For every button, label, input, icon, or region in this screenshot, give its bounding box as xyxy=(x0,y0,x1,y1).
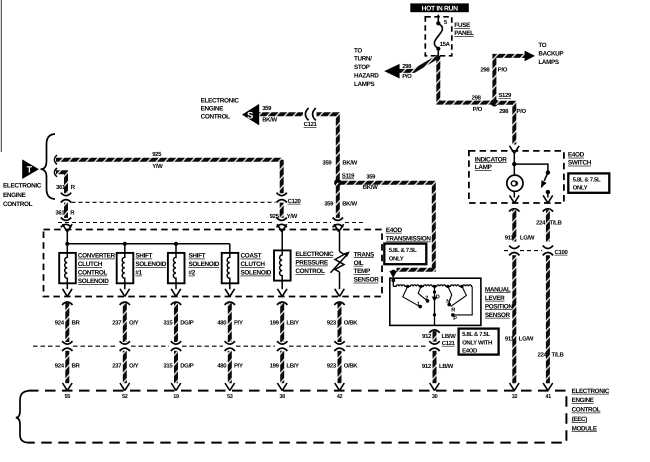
svg-text:BACKUP: BACKUP xyxy=(538,51,563,58)
svg-text:ELECTRONIC: ELECTRONIC xyxy=(572,388,610,395)
svg-text:911: 911 xyxy=(505,235,515,242)
svg-text:STOP: STOP xyxy=(354,64,370,71)
svg-text:TURN/: TURN/ xyxy=(354,56,372,63)
svg-text:298: 298 xyxy=(499,108,509,115)
svg-text:DG/P: DG/P xyxy=(180,363,194,370)
wire 911 LG/W upper xyxy=(512,210,516,242)
wire 923 O/BK lower xyxy=(338,351,342,383)
entry arrow 359 into transmission box xyxy=(334,224,344,232)
connector pair on 361 wire at C120 line xyxy=(61,193,71,203)
splice S119 xyxy=(334,179,341,186)
entry arrow 925 into transmission box xyxy=(277,224,287,232)
svg-text:30: 30 xyxy=(432,394,438,400)
indicator lamp label xyxy=(475,156,507,171)
arrow to backup lamps xyxy=(525,51,535,62)
exit arrows at transmission box bottom xyxy=(63,289,73,297)
svg-text:2: 2 xyxy=(425,296,428,302)
svg-text:LAMPS: LAMPS xyxy=(538,59,558,66)
svg-text:19: 19 xyxy=(173,394,179,400)
MLP tap dots xyxy=(406,285,409,288)
electronic engine control label (left) xyxy=(3,183,42,209)
svg-text:P: P xyxy=(453,316,457,322)
svg-text:MODULE: MODULE xyxy=(572,425,597,432)
svg-text:298: 298 xyxy=(480,66,490,73)
svg-text:315: 315 xyxy=(163,363,173,370)
svg-text:1: 1 xyxy=(417,301,420,307)
connector C121 inline xyxy=(305,108,315,120)
connector caps below indicator box xyxy=(509,209,519,212)
svg-text:CONTROL: CONTROL xyxy=(201,113,231,120)
shift solenoid #2 xyxy=(168,253,185,289)
label 298 P/O xyxy=(472,95,483,114)
svg-text:DG/P: DG/P xyxy=(180,319,194,326)
svg-text:COAST: COAST xyxy=(241,253,262,260)
connector C121 long dashed line xyxy=(33,345,428,347)
svg-text:LG/W: LG/W xyxy=(519,336,534,343)
svg-text:P/O: P/O xyxy=(473,106,483,113)
EEC module label xyxy=(572,388,610,433)
svg-text:C121: C121 xyxy=(442,340,456,347)
wire 480 P/Y lower xyxy=(228,351,232,383)
svg-text:912: 912 xyxy=(422,363,432,370)
svg-text:TRANSMISSION: TRANSMISSION xyxy=(386,236,432,243)
svg-text:S: S xyxy=(247,111,253,122)
svg-text:O/Y: O/Y xyxy=(129,363,139,370)
svg-text:315: 315 xyxy=(163,319,173,326)
svg-text:361: 361 xyxy=(56,184,66,191)
svg-text:LG/W: LG/W xyxy=(520,235,535,242)
connector pair on 359 wire xyxy=(333,218,343,228)
entry arrow 361 into transmission box xyxy=(63,224,73,232)
EEC module entry arrows xyxy=(63,383,73,391)
EEC brace xyxy=(16,391,28,443)
label 298 P/O left xyxy=(402,63,412,80)
MLP contact dots xyxy=(418,305,422,309)
connector C100 xyxy=(504,250,542,252)
solenoid feed bus xyxy=(67,232,230,253)
svg-text:P/Y: P/Y xyxy=(234,363,243,370)
svg-text:5.8L & 7.5L: 5.8L & 7.5L xyxy=(389,247,417,254)
wire 361 R down from brace xyxy=(56,172,66,193)
svg-text:C120: C120 xyxy=(288,198,302,205)
wire 912 LB/W lower xyxy=(433,351,437,383)
wire 924 BR xyxy=(65,303,69,342)
connector pair on 361 wire line2 xyxy=(61,218,71,228)
entry arrow into indicator lamp box xyxy=(510,146,520,154)
svg-text:SOLENOID: SOLENOID xyxy=(241,270,272,277)
wire 224 T/LB upper xyxy=(546,210,550,242)
svg-text:P/Y: P/Y xyxy=(234,319,243,326)
svg-text:#2: #2 xyxy=(189,270,196,277)
svg-text:N: N xyxy=(446,299,450,305)
svg-text:(EEC): (EEC) xyxy=(572,416,588,423)
off-page connector S xyxy=(242,104,259,126)
wire 923 O/BK xyxy=(338,303,342,342)
MLP resistor chain xyxy=(393,285,472,287)
5.8L & 7.5L only box (switch) xyxy=(568,173,609,192)
wire C121 to S119 xyxy=(317,114,338,180)
svg-text:480: 480 xyxy=(217,363,227,370)
svg-text:359: 359 xyxy=(262,105,272,112)
label 359 BK/W vertical xyxy=(322,159,357,166)
svg-text:BR: BR xyxy=(72,319,81,326)
svg-text:FUSE: FUSE xyxy=(454,22,471,29)
wire 911 LG/W lower xyxy=(512,255,516,383)
svg-text:TEMP: TEMP xyxy=(354,268,371,275)
svg-text:5.8L & 7.5L: 5.8L & 7.5L xyxy=(573,177,601,184)
svg-text:T/LB: T/LB xyxy=(552,352,565,359)
arrow to turn/stop hazard lamps xyxy=(384,64,399,79)
svg-text:SOLENOID: SOLENOID xyxy=(135,261,166,268)
svg-text:298: 298 xyxy=(472,95,482,102)
svg-text:SENSOR: SENSOR xyxy=(485,312,511,319)
svg-text:ELECTRONIC: ELECTRONIC xyxy=(3,183,42,190)
svg-text:ENGINE: ENGINE xyxy=(3,192,26,199)
svg-text:SENSOR: SENSOR xyxy=(354,277,380,284)
svg-text:52: 52 xyxy=(122,394,128,400)
shift solenoid #1 xyxy=(117,253,134,289)
svg-text:E4OD: E4OD xyxy=(462,348,478,355)
svg-text:CONVERTER: CONVERTER xyxy=(78,253,116,260)
branch to switch xyxy=(514,164,548,197)
wire 315 DG/P xyxy=(174,303,178,342)
connector caps below transmission box xyxy=(62,302,72,305)
svg-text:BK/W: BK/W xyxy=(342,159,357,166)
svg-text:924: 924 xyxy=(55,319,65,326)
E4OD switch label xyxy=(568,152,592,167)
svg-text:224: 224 xyxy=(538,352,548,359)
svg-text:53: 53 xyxy=(227,394,233,400)
label 298 P/O up branch xyxy=(480,66,507,73)
svg-text:LEVER: LEVER xyxy=(485,295,505,302)
svg-text:Y/W: Y/W xyxy=(152,163,163,170)
5.8L & 7.5L only with E4OD box xyxy=(459,329,499,355)
svg-text:CONTROL: CONTROL xyxy=(295,268,325,275)
converter clutch control solenoid xyxy=(59,253,76,289)
wire 199 LB/Y xyxy=(280,303,284,342)
svg-text:32: 32 xyxy=(512,394,518,400)
page edge artifact line xyxy=(0,0,2,152)
wire 925 down leg xyxy=(280,160,284,193)
fuse panel dashed box xyxy=(425,17,452,56)
splice S129 xyxy=(491,99,498,106)
connector dashed line C120 xyxy=(72,201,276,203)
svg-text:POSITION: POSITION xyxy=(485,303,513,310)
svg-text:42: 42 xyxy=(337,394,343,400)
svg-text:LAMP: LAMP xyxy=(475,164,493,171)
svg-text:ONLY: ONLY xyxy=(573,185,588,192)
svg-text:237: 237 xyxy=(112,319,122,326)
MLP feed stub and solid entry arrow xyxy=(391,270,395,272)
svg-text:361: 361 xyxy=(55,210,65,217)
svg-text:298: 298 xyxy=(402,63,412,70)
svg-text:41: 41 xyxy=(545,394,551,400)
svg-text:ENGINE: ENGINE xyxy=(201,105,224,112)
svg-text:BK/W: BK/W xyxy=(342,201,357,208)
wire 237 O/Y lower xyxy=(123,351,127,383)
wire fuse to S129 xyxy=(438,56,491,103)
lamp feed line xyxy=(513,153,515,197)
svg-text:LB/W: LB/W xyxy=(439,363,454,370)
HOT IN RUN header box xyxy=(410,3,469,12)
svg-text:LB/Y: LB/Y xyxy=(286,363,299,370)
connector dashed line 2 xyxy=(58,222,363,224)
electronic engine control label (top) xyxy=(201,98,240,121)
svg-text:359: 359 xyxy=(366,174,376,181)
wire S129 up to backup lamps xyxy=(494,56,525,103)
coast clutch solenoid xyxy=(222,253,239,289)
svg-text:ELECTRONIC: ELECTRONIC xyxy=(201,98,240,105)
electronic pressure control solenoid xyxy=(274,232,291,289)
svg-text:38: 38 xyxy=(279,394,285,400)
svg-text:HOT IN RUN: HOT IN RUN xyxy=(422,5,459,12)
svg-text:CONTROL: CONTROL xyxy=(572,407,601,414)
svg-text:SOLENOID: SOLENOID xyxy=(189,261,220,268)
svg-text:#1: #1 xyxy=(135,270,142,277)
svg-text:C121: C121 xyxy=(304,121,318,128)
E4OD switch xyxy=(546,170,550,174)
junction dot xyxy=(512,162,516,166)
EEC module dashed box xyxy=(28,391,566,443)
svg-text:LB/Y: LB/Y xyxy=(286,319,299,326)
svg-text:5.8L & 7.5L: 5.8L & 7.5L xyxy=(462,331,490,338)
svg-text:SWITCH: SWITCH xyxy=(568,160,592,167)
svg-text:ENGINE: ENGINE xyxy=(572,397,594,404)
exit arrows indicator box xyxy=(510,195,520,203)
svg-text:CLUTCH: CLUTCH xyxy=(78,261,103,268)
connector pairs on six wires at C121 line xyxy=(62,341,72,351)
connector cap below MLP box xyxy=(429,330,439,333)
svg-text:359: 359 xyxy=(324,201,334,208)
svg-text:PANEL: PANEL xyxy=(454,30,474,37)
EEC pin numbers xyxy=(65,394,552,400)
svg-text:S119: S119 xyxy=(342,173,355,180)
off-page connector T xyxy=(22,159,39,179)
trans oil temp sensor thermistor xyxy=(331,232,348,289)
wire 298 to turn/stop lamps xyxy=(399,57,439,71)
svg-text:INDICATOR: INDICATOR xyxy=(475,156,507,163)
svg-text:P/O: P/O xyxy=(498,66,508,73)
svg-text:912: 912 xyxy=(422,333,432,340)
svg-text:SOLENOID: SOLENOID xyxy=(78,278,109,285)
svg-text:237: 237 xyxy=(112,363,122,370)
svg-text:HAZARD: HAZARD xyxy=(354,73,379,80)
svg-text:T: T xyxy=(27,165,33,175)
wire S119 down to trans oil temp sensor xyxy=(336,183,340,218)
svg-text:MANUAL: MANUAL xyxy=(485,286,511,293)
svg-text:224: 224 xyxy=(536,220,546,227)
svg-text:BK/W: BK/W xyxy=(363,184,378,191)
svg-text:T/LB: T/LB xyxy=(550,220,563,227)
svg-text:C100: C100 xyxy=(555,249,569,256)
indicator lamp xyxy=(507,175,523,191)
svg-text:ONLY: ONLY xyxy=(389,256,404,263)
wire 912 upper stub xyxy=(433,331,437,342)
wire 925 Y/W horizontal xyxy=(56,158,282,162)
wire 480 P/Y xyxy=(228,303,232,342)
svg-text:TRANS: TRANS xyxy=(354,251,375,258)
svg-text:OIL: OIL xyxy=(354,260,364,267)
svg-text:CONTROL: CONTROL xyxy=(3,201,33,208)
svg-text:359: 359 xyxy=(322,159,332,166)
svg-text:PRESSURE: PRESSURE xyxy=(295,260,328,267)
connector C121 pair on 912 wire xyxy=(429,341,439,351)
svg-text:923: 923 xyxy=(327,319,337,326)
brace at T xyxy=(41,134,56,199)
svg-text:R: R xyxy=(451,308,455,314)
svg-text:TO: TO xyxy=(538,42,546,49)
svg-text:SHIFT: SHIFT xyxy=(189,253,206,260)
svg-text:P/O: P/O xyxy=(517,108,527,115)
svg-text:O/BK: O/BK xyxy=(344,319,359,326)
E4OD transmission dashed box xyxy=(44,230,383,297)
svg-text:15A: 15A xyxy=(440,41,451,48)
wire S129 to indicator lamp xyxy=(494,103,514,145)
wire 237 O/Y xyxy=(123,303,127,342)
MLP label xyxy=(485,286,513,319)
wire S119 right to MLP sensor xyxy=(341,183,434,270)
svg-text:LB/W: LB/W xyxy=(442,333,457,340)
svg-text:O/Y: O/Y xyxy=(129,319,139,326)
svg-text:BK/W: BK/W xyxy=(262,116,277,123)
svg-text:911: 911 xyxy=(505,336,515,343)
svg-text:SHIFT: SHIFT xyxy=(135,253,152,260)
svg-text:199: 199 xyxy=(270,363,280,370)
wire 315 DG/P lower xyxy=(174,351,178,383)
svg-text:P/O: P/O xyxy=(402,73,412,80)
fuse panel label xyxy=(454,22,474,37)
svg-text:ONLY WITH: ONLY WITH xyxy=(462,339,492,346)
svg-text:199: 199 xyxy=(270,319,280,326)
svg-text:925: 925 xyxy=(152,151,162,158)
MLP position letters xyxy=(417,295,457,322)
wire 199 LB/Y lower xyxy=(280,351,284,383)
svg-text:TO: TO xyxy=(354,47,362,54)
svg-text:ELECTRONIC: ELECTRONIC xyxy=(295,251,334,258)
svg-text:480: 480 xyxy=(217,319,227,326)
manual lever position sensor box xyxy=(390,278,481,325)
svg-text:CLUTCH: CLUTCH xyxy=(241,261,266,268)
wire 361 R lower xyxy=(64,203,68,218)
svg-text:E4OD: E4OD xyxy=(386,227,403,234)
indicator lamp dashed box xyxy=(469,151,564,203)
wire 924 BR lower xyxy=(65,351,69,383)
svg-text:BR: BR xyxy=(72,363,81,370)
svg-text:LAMPS: LAMPS xyxy=(354,81,374,88)
label 298 P/O right branch xyxy=(499,108,526,115)
svg-text:Y/W: Y/W xyxy=(287,213,298,220)
svg-text:CONTROL: CONTROL xyxy=(78,270,108,277)
fuse 15A xyxy=(434,15,442,56)
MLP entry node xyxy=(391,279,395,283)
MLP wiper line xyxy=(434,286,436,325)
wire 224 T/LB lower xyxy=(546,255,550,383)
svg-text:923: 923 xyxy=(327,363,337,370)
svg-text:55: 55 xyxy=(65,394,71,400)
connector pair on 925 wire line2 xyxy=(277,218,287,228)
E4OD transmission label xyxy=(386,227,432,243)
connector C120 xyxy=(277,193,287,203)
svg-text:O/BK: O/BK xyxy=(344,363,359,370)
svg-text:S129: S129 xyxy=(498,92,512,99)
wire end arcs at brace xyxy=(54,155,57,177)
svg-text:924: 924 xyxy=(55,363,65,370)
5.8L & 7.5L only box (transmission) xyxy=(384,244,426,265)
wire 359 BK/W to C121 xyxy=(259,112,303,116)
wire 925 lower xyxy=(280,203,284,218)
MLP contact fan lines xyxy=(403,286,472,315)
svg-text:E4OD: E4OD xyxy=(568,152,585,159)
bus junction dots xyxy=(65,242,69,246)
